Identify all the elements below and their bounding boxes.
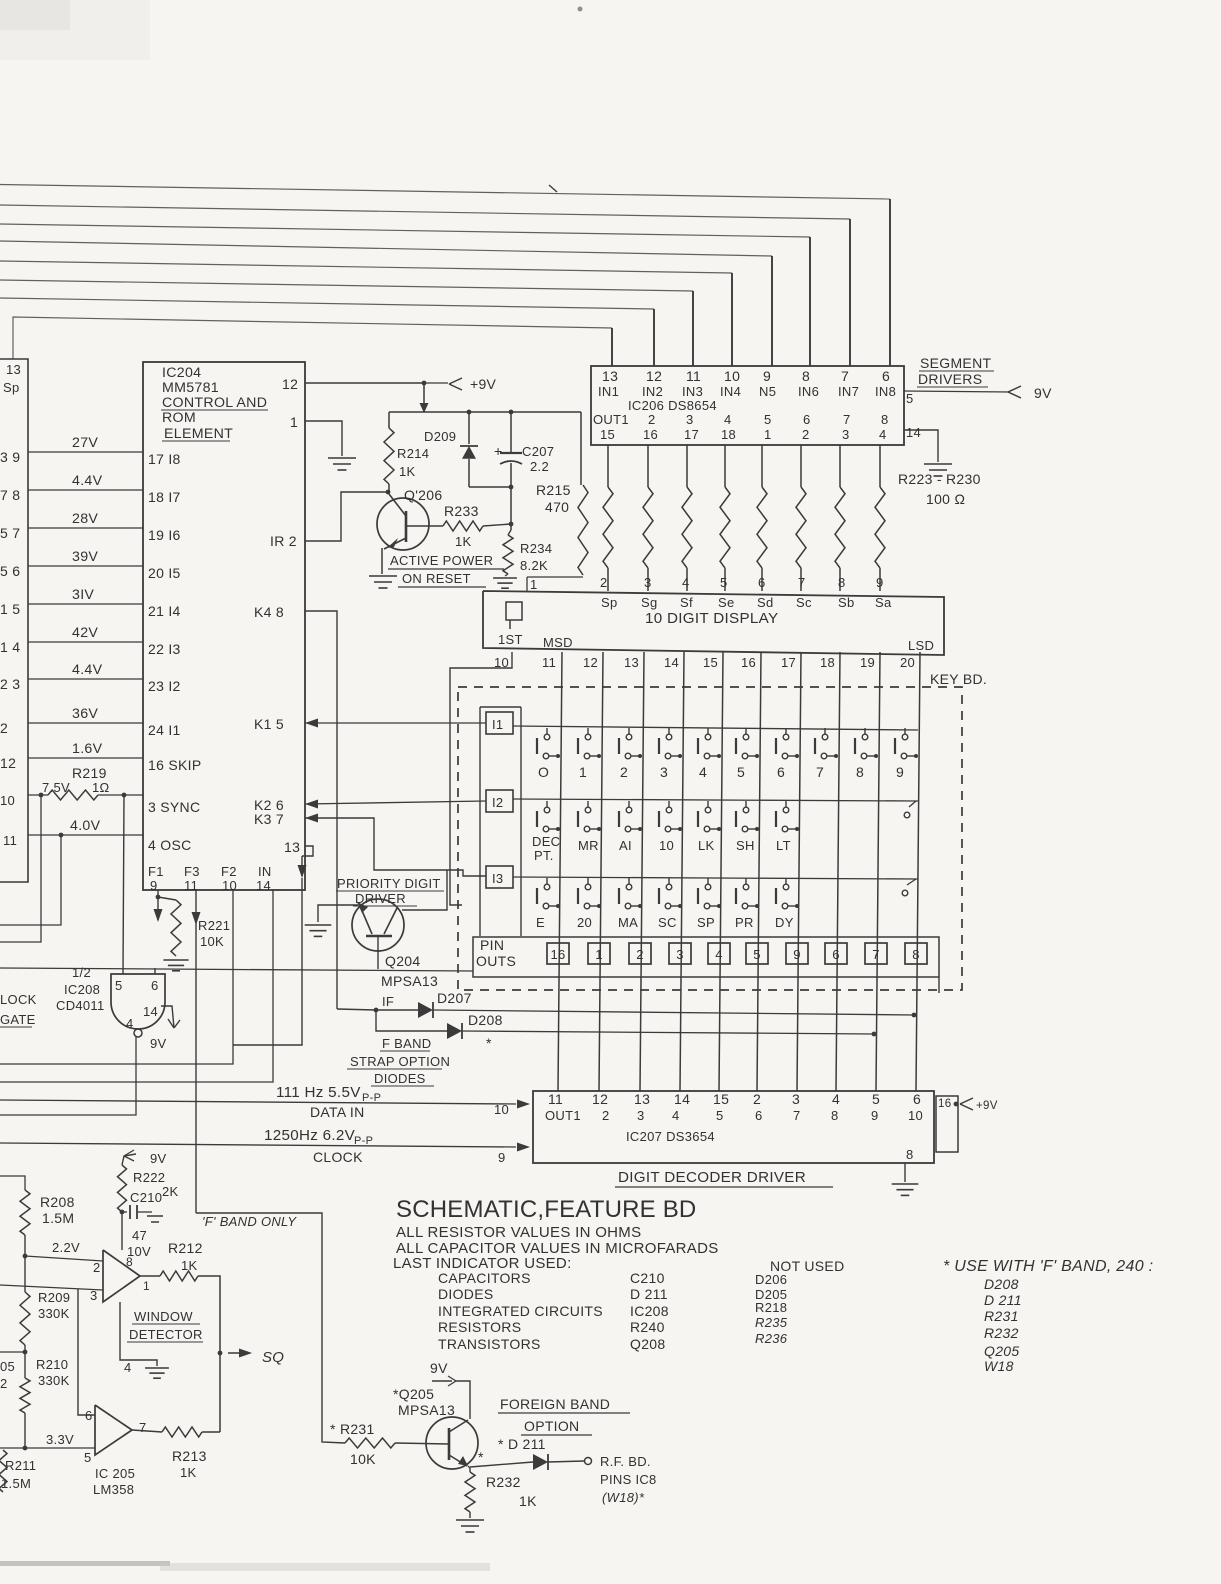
svg-text:7: 7	[798, 575, 806, 590]
svg-text:Q208: Q208	[630, 1336, 665, 1352]
resistor R208 1.5M	[20, 1190, 30, 1235]
svg-text:2: 2	[0, 1376, 8, 1391]
node junction R233/R234/C207	[509, 522, 514, 527]
svg-text:IN2: IN2	[642, 384, 663, 399]
svg-text:2: 2	[636, 947, 644, 962]
svg-text:R211: R211	[5, 1458, 36, 1473]
long wire net to NAND input 6 and Q204 base	[0, 968, 473, 971]
wire NAND input 6 stub	[154, 968, 156, 974]
9V tab at IC207 pin 16	[936, 1096, 958, 1152]
wire IC204 pin F3 down to F-band jog	[195, 890, 197, 1213]
svg-text:ROM: ROM	[162, 410, 196, 426]
IC U-IC204 MM5781 control and ROM element	[143, 362, 305, 890]
svg-text:8: 8	[831, 1108, 839, 1123]
svg-text:AI: AI	[619, 838, 632, 853]
node junction SQ output	[218, 1351, 223, 1356]
wire from 4.0V node down to left edge	[0, 835, 61, 925]
svg-text:1: 1	[595, 947, 603, 962]
svg-text:11: 11	[542, 655, 556, 670]
svg-text:INTEGRATED CIRCUITS: INTEGRATED CIRCUITS	[438, 1303, 603, 1319]
svg-text:R234: R234	[520, 541, 552, 556]
svg-text:36V: 36V	[72, 706, 98, 722]
svg-text:IN4: IN4	[720, 384, 741, 399]
svg-text:R209: R209	[38, 1290, 70, 1305]
diode D209	[468, 412, 470, 444]
svg-text:16: 16	[938, 1098, 951, 1110]
svg-text:9V: 9V	[430, 1360, 448, 1376]
svg-text:O: O	[538, 764, 549, 780]
pin out box 3	[669, 943, 691, 964]
svg-text:3 SYNC: 3 SYNC	[148, 799, 200, 815]
svg-text:D206: D206	[755, 1272, 787, 1287]
resistor R212 1K	[140, 1275, 160, 1277]
unused contact row2 right	[904, 812, 910, 818]
wire 27V into IC204 pin 17 I8	[28, 451, 143, 453]
svg-text:9: 9	[876, 575, 884, 590]
svg-text:D 211: D 211	[630, 1286, 668, 1302]
ground at IC206 pin 14	[924, 463, 952, 465]
wire F3 net jog to R231 (F band only)	[196, 1213, 345, 1443]
9V supply arrow at IC206 pin 5	[1008, 386, 1021, 392]
op-amp IC205b	[95, 1405, 132, 1455]
svg-text:9V: 9V	[1034, 385, 1052, 401]
svg-text:16: 16	[550, 947, 565, 962]
key switch row1 '8'	[864, 728, 866, 734]
svg-text:17 I8: 17 I8	[148, 451, 181, 467]
ground at op-amp pin 4	[145, 1367, 169, 1369]
svg-text:R213: R213	[172, 1448, 207, 1464]
svg-text:D209: D209	[424, 429, 456, 444]
svg-text:5: 5	[764, 412, 772, 427]
svg-text:RESISTORS: RESISTORS	[438, 1319, 521, 1335]
wire input to R208 from left edge	[0, 1176, 25, 1190]
svg-text:10: 10	[222, 878, 237, 893]
svg-text:16: 16	[741, 655, 756, 670]
svg-text:R222: R222	[133, 1170, 165, 1185]
resistor R213 1K	[132, 1430, 162, 1432]
wire C207 to R233/R234 node	[510, 487, 512, 530]
svg-text:PIN: PIN	[480, 937, 504, 953]
pin out box 8	[905, 943, 927, 964]
svg-text:15: 15	[600, 427, 615, 442]
svg-text:6: 6	[777, 764, 785, 780]
svg-text:6: 6	[755, 1108, 763, 1123]
diode D208	[376, 1010, 447, 1031]
svg-text:I2: I2	[492, 795, 503, 810]
svg-text:1ST: 1ST	[498, 632, 523, 647]
svg-text:17: 17	[781, 655, 796, 670]
svg-text:7: 7	[793, 1108, 801, 1123]
svg-text:IF: IF	[382, 994, 394, 1009]
svg-text:ALL RESISTOR VALUES IN OHMS: ALL RESISTOR VALUES IN OHMS	[396, 1224, 641, 1241]
svg-text:9: 9	[150, 878, 158, 893]
svg-text:IN7: IN7	[838, 384, 859, 399]
svg-text:IN: IN	[258, 864, 272, 879]
wire strap diode row IF	[337, 1009, 376, 1010]
wire keyboard column 12 down to IC207	[599, 652, 603, 1091]
wire 42V into IC204 pin 22 I3	[28, 641, 143, 643]
node junction R214/Q206 collector	[386, 490, 391, 495]
svg-text:R221: R221	[198, 918, 230, 933]
svg-text:3: 3	[660, 764, 668, 780]
svg-text:DIGIT DECODER DRIVER: DIGIT DECODER DRIVER	[618, 1169, 806, 1186]
svg-text:5: 5	[115, 978, 123, 993]
svg-text:C210: C210	[630, 1270, 665, 1286]
svg-text:1.6V: 1.6V	[72, 741, 103, 757]
svg-text:4: 4	[124, 1360, 132, 1375]
ground at R232	[456, 1519, 484, 1521]
row select box I1	[486, 712, 513, 734]
wire 4.0V into IC204 pin 4 OSC	[28, 834, 143, 836]
wire Q204 base to common net	[377, 936, 379, 969]
wire keyboard column 16 down to IC207	[757, 652, 761, 1091]
node junction at pin3 net	[78, 1289, 95, 1415]
svg-text:5 6: 5 6	[0, 563, 20, 579]
svg-text:19 I6: 19 I6	[148, 527, 181, 543]
svg-text:14: 14	[906, 425, 921, 440]
ground at Q206 emitter	[369, 575, 397, 577]
display module 10 DIGIT DISPLAY	[483, 591, 944, 655]
junction tick mark on top feed line	[549, 185, 557, 192]
svg-text:R223 - R230: R223 - R230	[898, 471, 981, 487]
resistor R219 7.5V 1 ohm	[28, 794, 48, 796]
svg-text:R208: R208	[40, 1194, 75, 1210]
svg-text:11: 11	[686, 368, 701, 384]
key switch row3 'MA'	[628, 878, 630, 884]
svg-text:Sd: Sd	[757, 595, 774, 610]
svg-text:3: 3	[792, 1091, 800, 1107]
wire IC207 pin 8 to ground	[904, 1163, 906, 1182]
svg-text:P-P: P-P	[354, 1135, 373, 1147]
svg-text:MSD: MSD	[543, 635, 573, 650]
svg-text:1: 1	[290, 414, 298, 430]
svg-text:10: 10	[0, 793, 15, 808]
svg-text:IC207 DS3654: IC207 DS3654	[626, 1129, 715, 1144]
svg-text:12: 12	[583, 655, 598, 670]
svg-text:* USE WITH 'F' BAND, 240 :: * USE WITH 'F' BAND, 240 :	[943, 1258, 1153, 1275]
wire IC206 pin 14 to ground	[904, 430, 938, 462]
svg-text:IC204: IC204	[162, 365, 201, 381]
svg-text:7: 7	[841, 368, 849, 384]
op-amp IC205a	[103, 1250, 140, 1302]
svg-text:C210: C210	[130, 1190, 162, 1205]
svg-text:I3: I3	[492, 871, 503, 886]
svg-text:8: 8	[906, 1147, 914, 1162]
svg-text:9: 9	[871, 1108, 879, 1123]
wire IC206 pin 5 to 9V	[904, 391, 1010, 392]
resistor R231 10K	[345, 1438, 395, 1448]
svg-text:4: 4	[672, 1108, 680, 1123]
wire IC204 pin F1	[157, 890, 159, 897]
svg-text:11: 11	[548, 1091, 563, 1107]
svg-text:2: 2	[0, 720, 8, 736]
node junction R222/C210	[120, 1210, 125, 1215]
terminal circle to RF board	[585, 1458, 592, 1465]
key switch row2 '10'	[668, 801, 670, 807]
svg-text:6: 6	[758, 575, 766, 590]
wire keyboard column 14 down to IC207	[680, 652, 684, 1091]
row select box I2	[486, 790, 513, 812]
key switch row3 'SP'	[707, 878, 709, 884]
svg-text:MM5781: MM5781	[162, 380, 219, 396]
svg-text:470: 470	[545, 499, 569, 515]
svg-text:2.2: 2.2	[530, 459, 549, 474]
svg-text:20 I5: 20 I5	[148, 565, 181, 581]
wire keyboard column 18 down to IC207	[836, 652, 840, 1091]
wire K1 row from IC204	[305, 719, 318, 728]
keyboard input frame	[480, 706, 521, 708]
svg-text:7: 7	[816, 764, 824, 780]
svg-text:5: 5	[720, 575, 728, 590]
svg-text:9: 9	[793, 947, 801, 962]
svg-text:4: 4	[724, 412, 732, 427]
svg-text:E: E	[536, 915, 545, 930]
svg-text:SCHEMATIC,FEATURE BD: SCHEMATIC,FEATURE BD	[396, 1196, 696, 1223]
unused contact row3 right	[902, 890, 908, 896]
wire keyboard column 15 down to IC207	[719, 652, 723, 1091]
svg-text:3IV: 3IV	[72, 587, 94, 603]
svg-text:05: 05	[0, 1359, 15, 1374]
svg-text:K1 5: K1 5	[254, 716, 284, 732]
svg-text:R.F. BD.: R.F. BD.	[600, 1454, 651, 1469]
svg-text:14: 14	[674, 1091, 690, 1107]
resistor R215 470	[580, 412, 582, 485]
svg-text:22 I3: 22 I3	[148, 641, 181, 657]
svg-text:111 Hz 5.5V: 111 Hz 5.5V	[276, 1084, 361, 1101]
svg-text:6: 6	[913, 1091, 921, 1107]
key switch row1 '4'	[707, 728, 709, 734]
svg-text:1Ω: 1Ω	[92, 780, 110, 795]
svg-text:+: +	[494, 443, 502, 459]
svg-text:4: 4	[682, 575, 690, 590]
svg-text:330K: 330K	[38, 1306, 70, 1321]
node junction D208 to column 7	[872, 1032, 877, 1037]
wire R232 to ground	[469, 1512, 471, 1518]
wire K2 row from IC204	[305, 800, 318, 809]
wire from R219 node down to left edge	[0, 795, 41, 942]
wire from left edge to R209/R210 node	[0, 1351, 25, 1353]
svg-text:42V: 42V	[72, 625, 98, 641]
diode D211	[470, 1462, 533, 1467]
svg-text:N5: N5	[759, 384, 776, 399]
svg-text:9V: 9V	[150, 1036, 167, 1051]
wire segment feed line to IC206 IN7	[0, 205, 850, 219]
svg-text:F3: F3	[184, 864, 200, 879]
display pin 10 wire to keyboard frame	[450, 652, 512, 905]
wire 3IV into IC204 pin 21 I4	[28, 603, 143, 605]
svg-text:28V: 28V	[72, 511, 98, 527]
resistor R222 2K	[118, 1165, 127, 1212]
wire D209 to C207 bottom	[469, 486, 511, 488]
svg-text:R232: R232	[486, 1474, 521, 1490]
node junction R209/R210	[23, 1350, 28, 1355]
svg-text:4 OSC: 4 OSC	[148, 837, 192, 853]
svg-text:15: 15	[713, 1091, 729, 1107]
svg-text:5: 5	[906, 391, 914, 406]
ground at R234	[505, 574, 508, 576]
svg-text:2.2V: 2.2V	[52, 1240, 80, 1255]
svg-text:3: 3	[686, 412, 694, 427]
svg-text:Q204: Q204	[385, 953, 420, 969]
svg-text:23 I2: 23 I2	[148, 678, 181, 694]
svg-text:MR: MR	[578, 838, 599, 853]
svg-text:+9V: +9V	[976, 1100, 998, 1112]
svg-text:* D 211: * D 211	[498, 1436, 546, 1452]
diode D207	[376, 1009, 418, 1011]
svg-text:STRAP OPTION: STRAP OPTION	[350, 1054, 450, 1069]
svg-text:Sa: Sa	[875, 595, 892, 610]
resistor R233 1K	[406, 525, 443, 527]
svg-text:7 8: 7 8	[0, 487, 20, 503]
svg-text:14: 14	[256, 878, 271, 893]
node junction D207 to column 8	[912, 1013, 917, 1018]
resistor R211 1.5M partial at page edge	[0, 1450, 7, 1492]
wire Q204 emitter to ground	[318, 905, 358, 922]
svg-text:6: 6	[151, 978, 159, 993]
svg-text:D207: D207	[437, 990, 472, 1006]
node junction at F1	[156, 895, 161, 900]
svg-text:MA: MA	[618, 915, 638, 930]
svg-text:1: 1	[579, 764, 587, 780]
svg-text:ON RESET: ON RESET	[402, 571, 471, 586]
wire R215 to display pin 1	[527, 576, 583, 578]
+9V supply arrow at IC204 pin 12	[424, 382, 448, 384]
svg-text:10: 10	[494, 655, 509, 670]
svg-text:7: 7	[843, 412, 851, 427]
svg-text:18: 18	[820, 655, 835, 670]
svg-text:24 I1: 24 I1	[148, 722, 181, 738]
svg-text:13: 13	[624, 655, 639, 670]
wire keyboard column 17 down to IC207	[797, 652, 801, 1091]
wire CLOCK line	[0, 1143, 516, 1147]
svg-text:Sf: Sf	[680, 595, 693, 610]
svg-text:(W18)*: (W18)*	[602, 1490, 645, 1505]
svg-text:R218: R218	[755, 1300, 787, 1315]
svg-text:8: 8	[802, 368, 810, 384]
ground at R221	[163, 959, 188, 961]
pin out box 7	[865, 943, 887, 964]
svg-text:IC206 DS8654: IC206 DS8654	[628, 398, 717, 413]
svg-text:Sg: Sg	[641, 595, 658, 610]
wire K3 row from IC204 via priority driver node	[305, 814, 318, 823]
wire R222 node to op-amp pin 8	[121, 1212, 123, 1250]
svg-text:20: 20	[900, 655, 915, 670]
svg-text:P-P: P-P	[362, 1092, 381, 1104]
svg-text:11: 11	[3, 833, 17, 848]
svg-text:17: 17	[684, 427, 699, 442]
svg-text:13: 13	[634, 1091, 650, 1107]
key switch row1 '1'	[587, 728, 589, 734]
ground at IC204 pin 1	[328, 457, 356, 459]
keyboard dashed enclosure KEY BD	[458, 687, 962, 990]
svg-text:'F' BAND ONLY: 'F' BAND ONLY	[202, 1214, 297, 1229]
key switch row1 '6'	[785, 728, 787, 734]
svg-text:5 7: 5 7	[0, 525, 20, 541]
wire 39V into IC204 pin 20 I5	[28, 565, 143, 567]
svg-text:W18: W18	[984, 1358, 1014, 1374]
key switch row3 'SC'	[668, 878, 670, 884]
svg-text:4.4V: 4.4V	[72, 473, 103, 489]
wire IC204 pin 12 to +9V rail	[305, 382, 424, 384]
key switch row3 '20'	[587, 878, 589, 884]
node junction on 4.0V wire	[59, 833, 64, 838]
pin outs box	[473, 937, 939, 977]
wire 36V into IC204 pin 24 I1	[28, 722, 143, 724]
svg-text:2: 2	[620, 764, 628, 780]
svg-text:LK: LK	[698, 838, 715, 853]
svg-text:5: 5	[84, 1450, 92, 1465]
pin out box 4	[708, 943, 730, 964]
svg-text:21 I4: 21 I4	[148, 603, 181, 619]
svg-text:IC208: IC208	[64, 982, 100, 997]
svg-text:IN3: IN3	[682, 384, 703, 399]
key switch row2 'LT'	[785, 801, 787, 807]
wire NAND output to left edge	[0, 1037, 136, 1115]
svg-text:C207: C207	[522, 444, 554, 459]
svg-text:8.2K: 8.2K	[520, 558, 548, 573]
wire 28V into IC204 pin 19 I6	[28, 527, 143, 529]
scan smudge top-left (decorative)	[0, 0, 150, 60]
svg-text:6: 6	[882, 368, 890, 384]
svg-text:16 SKIP: 16 SKIP	[148, 757, 201, 773]
svg-text:330K: 330K	[38, 1373, 70, 1388]
svg-text:D208: D208	[984, 1276, 1019, 1292]
svg-text:LOCK: LOCK	[0, 992, 37, 1007]
svg-text:WINDOW: WINDOW	[134, 1309, 193, 1324]
resistor R209 330K	[20, 1292, 30, 1345]
svg-text:1 5: 1 5	[0, 601, 20, 617]
svg-text:9V: 9V	[150, 1151, 167, 1166]
transistor Q205 MPSA13	[426, 1417, 478, 1469]
node junction 2.2V	[23, 1254, 28, 1259]
svg-text:39V: 39V	[72, 549, 98, 565]
wire keyboard column 11 down to IC207	[558, 652, 562, 1091]
svg-text:DRIVERS: DRIVERS	[918, 371, 982, 387]
resistor R214 1K	[388, 412, 390, 428]
svg-text:ELEMENT: ELEMENT	[164, 426, 233, 442]
svg-text:DETECTOR: DETECTOR	[129, 1327, 203, 1342]
svg-text:SQ: SQ	[262, 1349, 284, 1366]
ground at Q204 emitter	[305, 924, 332, 926]
svg-text:10: 10	[494, 1102, 509, 1117]
svg-text:13: 13	[6, 362, 21, 377]
svg-text:7: 7	[139, 1420, 147, 1435]
svg-text:14: 14	[143, 1004, 158, 1019]
key switch row3 'DY'	[785, 878, 787, 884]
svg-text:10K: 10K	[350, 1451, 376, 1467]
wire segment feed line to IC206 IN2	[0, 298, 654, 309]
key switch row1 '9'	[904, 728, 906, 734]
svg-text:13: 13	[284, 839, 300, 855]
svg-text:3: 3	[637, 1108, 645, 1123]
svg-text:10: 10	[724, 368, 740, 384]
svg-text:LM358: LM358	[93, 1482, 134, 1497]
svg-text:2: 2	[648, 412, 656, 427]
svg-text:PR: PR	[735, 915, 754, 930]
svg-text:OUTS: OUTS	[476, 953, 516, 969]
svg-text:I1: I1	[492, 717, 503, 732]
svg-text:SC: SC	[658, 915, 677, 930]
svg-text:100 Ω: 100 Ω	[926, 491, 965, 507]
wire NAND input 5 from R219 node	[123, 795, 124, 974]
svg-text:19: 19	[860, 655, 875, 670]
svg-text:3.3V: 3.3V	[46, 1432, 74, 1447]
svg-text:1K: 1K	[519, 1493, 537, 1509]
svg-text:7: 7	[872, 947, 880, 962]
svg-text:R214: R214	[397, 446, 429, 461]
svg-text:F2: F2	[221, 864, 237, 879]
svg-text:IR 2: IR 2	[270, 533, 297, 549]
